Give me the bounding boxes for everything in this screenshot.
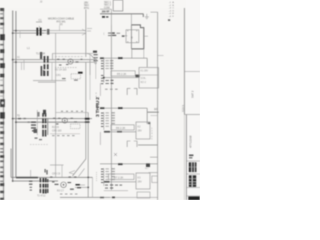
wire: arrow into module3 [69, 171, 75, 174]
wire stub x59 [59, 26, 61, 31]
wire stubs below module1 wires [22, 60, 25, 70]
wire rail xA [110, 25, 112, 190]
right module D [100, 153, 158, 198]
svg-text:REV A: REV A [182, 105, 185, 112]
wire mid yD [109, 174, 135, 180]
wire mid yC [111, 125, 134, 130]
svg-text:CR1: CR1 [56, 74, 61, 77]
wire dashes module1 [57, 59, 83, 66]
label: MICRO-COAX CABLE [48, 17, 74, 27]
right module A [102, 14, 148, 190]
wire stub below B [99, 83, 101, 96]
svg-text:R6 2.2K: R6 2.2K [116, 126, 126, 130]
capacitor C2 [40, 28, 42, 36]
wire yC top [100, 108, 147, 124]
wire bottom [60, 196, 110, 198]
svg-text:T1 PWR: T1 PWR [36, 53, 45, 56]
wire drop x52 [51, 62, 53, 80]
svg-text:CR2 100: CR2 100 [52, 129, 62, 132]
title strip inner border [157, 12, 159, 200]
power rail bus V2 [15, 11, 17, 178]
small cell box [152, 176, 158, 183]
svg-text:COIL: COIL [141, 78, 147, 80]
rail xD [103, 168, 105, 186]
node rail dots [12, 59, 17, 182]
component rows module A [108, 33, 112, 34]
dashes row y89 [105, 88, 118, 91]
motor B1 [68, 59, 73, 64]
wire: vertical W3 (x84.5) with curve into module 3 [73, 62, 86, 176]
wire tick right of bracket [144, 35, 148, 37]
svg-text:(2): (2) [59, 22, 62, 26]
svg-text:NO: NO [145, 168, 149, 170]
box corners below C [127, 141, 137, 147]
component rows module C [106, 112, 115, 127]
wire: center vertical W2 [85, 10, 87, 58]
box T4 top right [113, 0, 123, 11]
svg-text:28V: 28V [138, 129, 143, 132]
resistor R1 row [55, 67, 77, 69]
pin ticks module D [101, 169, 103, 183]
stamp block bottom [188, 196, 199, 200]
title strip tick y55 [158, 55, 164, 57]
paper background [0, 0, 200, 200]
right column: top connector P2 [100, 0, 149, 25]
dark dash on wire [118, 57, 123, 59]
rows below [106, 80, 109, 81]
bracket thick Q1 [131, 25, 143, 49]
svg-text:R3 C7: R3 C7 [57, 190, 64, 193]
wire x92.5 down [92, 177, 94, 197]
divider y115.5 [151, 115, 158, 117]
inductor L1 [47, 29, 49, 35]
svg-text:3 THRU 2: 3 THRU 2 [95, 97, 101, 117]
node J1b [15, 30, 17, 32]
stamp small [189, 155, 193, 157]
pin numbers column [151, 128, 153, 140]
wire: bus end arrows [82, 29, 92, 36]
wire y9 [100, 8, 111, 10]
node dot left of divider [148, 123, 150, 125]
label: arrow note at capacitors [36, 22, 42, 28]
node [103, 77, 105, 79]
right module C [100, 107, 150, 147]
wire loop top [53, 54, 94, 60]
wire vertical x95.8 [95, 57, 97, 79]
wire y190.6 [104, 190, 128, 192]
pin ticks module C [101, 113, 103, 127]
wire dashes module2 [53, 118, 77, 125]
node text: P1 labels top middle [84, 1, 89, 10]
component rows module D [106, 168, 115, 180]
wire: left loop vertical x11 [10, 149, 12, 178]
sheet border right lower [185, 115, 187, 201]
module 3 [11, 169, 158, 197]
wire y145 [138, 144, 158, 146]
svg-text:28V: 28V [138, 180, 143, 183]
node J1 [12, 32, 14, 34]
dashed box K1 [71, 74, 81, 79]
svg-text:28V RT: 28V RT [102, 12, 110, 14]
relay box K3 [126, 30, 139, 43]
svg-text:10: 10 [154, 107, 158, 111]
wire: vertical W4 (x88) [87, 113, 89, 198]
motor B2 [62, 118, 67, 123]
svg-text:R1 C4 100: R1 C4 100 [55, 69, 67, 72]
wire pair module 3 [11, 177, 93, 181]
wire tick [44, 30, 47, 31]
wire mid yB [111, 71, 135, 76]
wire x90 drop [89, 60, 91, 75]
motor B3 [61, 182, 67, 188]
svg-text:CR3 C8: CR3 C8 [52, 174, 61, 176]
component rows module B [106, 60, 114, 69]
module 1: transformer T1 primary bars [13, 33, 98, 177]
marks right of B3 [68, 182, 72, 183]
wire y112.5 [56, 112, 89, 114]
wire pair lower [33, 81, 66, 83]
node corner dark [93, 51, 97, 53]
capacitor C1 [36, 28, 38, 36]
divider y114 [184, 114, 200, 116]
wire y165 [50, 164, 64, 166]
svg-text:R5 2.2K: R5 2.2K [117, 72, 127, 76]
wire dashes module3 [50, 177, 77, 183]
dark dashes near x78 [76, 184, 80, 186]
box below K6 [137, 192, 150, 198]
wire drop x56 [55, 33, 57, 177]
capacitor C3 dark bar [78, 72, 83, 74]
wire stub below C [99, 132, 101, 145]
svg-text:SHT 2: SHT 2 [191, 90, 195, 98]
transformer T2 bars [42, 113, 44, 137]
dark mark y16 [102, 16, 105, 18]
wire squiggle to bus [87, 54, 95, 60]
divider y172.5 [149, 172, 158, 174]
wire x111 [110, 9, 112, 25]
wire stub x131 [130, 14, 132, 25]
divider ticks [186, 161, 200, 196]
wire yB top [100, 58, 147, 67]
divider y157 [150, 156, 158, 158]
relay box K5 [136, 122, 150, 139]
wire into box [125, 35, 128, 37]
right module B [100, 57, 159, 95]
pin ticks module B [101, 60, 103, 78]
sheet border right upper [183, 8, 185, 115]
divider y71.5 [184, 71, 200, 73]
sheet edge faint lower [183, 115, 185, 201]
marks left of B3 [55, 184, 59, 185]
wire stub x62 [61, 165, 63, 177]
wire stub x20 [19, 31, 21, 38]
terminal circle [95, 62, 97, 64]
component column marks m3 [29, 181, 32, 182]
power rail bus V1 [12, 11, 14, 182]
stamp block 2 [189, 175, 196, 187]
svg-text:Φ: Φ [131, 36, 133, 40]
divider y112 [148, 111, 159, 113]
wire lower m3 [75, 184, 85, 186]
wire vertical x90 [89, 54, 91, 101]
rail xB [103, 58, 105, 82]
svg-text:T3 4712: T3 4712 [37, 195, 46, 197]
wire y13.8 [100, 14, 143, 17]
top-right tiny text columns [169, 1, 175, 18]
wire pair module 2 [13, 119, 92, 123]
capacitor C5 dark dash [85, 118, 90, 120]
dashed vertical x96.5 [96, 172, 98, 182]
dark wire segment [16, 177, 38, 179]
svg-text:R7 2.2K: R7 2.2K [114, 175, 124, 179]
transformer T3 bars [40, 178, 42, 193]
box corners below [127, 88, 137, 95]
relay box K4 [139, 68, 159, 89]
marks near wire ends [62, 78, 66, 79]
wire dashed mid [55, 56, 84, 58]
svg-text:K1 28V: K1 28V [141, 71, 149, 73]
bottom marks [100, 197, 104, 198]
node J3 [87, 177, 89, 179]
rows below D [105, 184, 122, 188]
arrow mark [114, 153, 117, 156]
svg-text:NO 2: NO 2 [141, 82, 147, 84]
terminal dashes [94, 54, 98, 55]
rail xC [103, 112, 105, 130]
component column marks [31, 122, 36, 123]
svg-text:RTN: RTN [84, 7, 89, 10]
module 2 [13, 110, 92, 145]
title strip top tick [151, 11, 158, 13]
wire yD top [100, 163, 158, 165]
wire drop x37.5 [36, 110, 38, 135]
svg-text:47712268: 47712268 [188, 135, 192, 148]
film strip [0, 8, 5, 200]
relay box K6 [136, 173, 150, 189]
wire: top coax pair [13, 31, 44, 33]
dashed box K2 [71, 124, 81, 129]
stamp block 1 [189, 162, 197, 172]
